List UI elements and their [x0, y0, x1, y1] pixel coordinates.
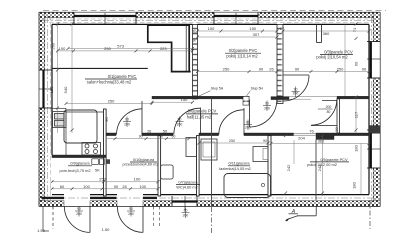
- svg-text:90: 90: [263, 139, 267, 143]
- door D3 lazienka-hall: [219, 108, 244, 135]
- svg-text:1.50: 1.50: [37, 228, 46, 233]
- window W5 right (pokoj 3): [367, 130, 381, 168]
- window W2 top (pokoj 1): [214, 13, 258, 24]
- wall V3 przedsionek left: [104, 109, 107, 196]
- svg-text:50: 50: [163, 128, 168, 133]
- room label pokoj 1: [225, 48, 261, 59]
- interior wall V2 pokoj1/pokoj2: [277, 24, 283, 96]
- wardrobe stub wall: [337, 99, 340, 133]
- door D2 wc-hall: [174, 108, 201, 136]
- boiler units in pom.tech: [92, 159, 99, 165]
- wall axis dash-dot lines: [42, 16, 377, 203]
- outer wall top band: [39, 12, 380, 17]
- hall south wall H2 segments: [104, 133, 370, 140]
- svg-text:26: 26: [269, 66, 274, 71]
- outer wall right band: [373, 12, 380, 206]
- svg-text:242: 242: [286, 164, 291, 171]
- svg-text:80: 80: [327, 110, 331, 114]
- wall V4 wc left: [158, 136, 161, 196]
- interior wall V1 salon/pokoj1: [193, 24, 198, 99]
- svg-text:łazienka|14,05 m2: łazienka|14,05 m2: [219, 166, 251, 171]
- wall V5 lazienka left: [197, 136, 200, 196]
- svg-text:pokój 1|10,14 m2: pokój 1|10,14 m2: [226, 54, 258, 59]
- counter edge left: [65, 108, 67, 155]
- svg-text:573: 573: [117, 43, 124, 48]
- window W1 top (salon): [74, 13, 136, 24]
- svg-text:362: 362: [318, 138, 325, 143]
- dimension tick marks: [51, 23, 371, 195]
- dashed pair below wc wall: [154, 207, 160, 229]
- svg-text:76: 76: [309, 128, 314, 133]
- opening pokoj3 (no leaf): [294, 133, 317, 135]
- window W4 right (pokoj 2): [367, 42, 381, 79]
- svg-text:70: 70: [159, 135, 163, 139]
- svg-text:60: 60: [60, 184, 65, 189]
- svg-text:salon+kuchnia|33,48 m2: salon+kuchnia|33,48 m2: [87, 79, 132, 84]
- svg-text:przedsionek|4,60 m2: przedsionek|4,60 m2: [122, 161, 158, 166]
- svg-text:223: 223: [160, 46, 167, 51]
- room label pokoj 2: [316, 49, 353, 59]
- svg-text:180: 180: [354, 144, 359, 151]
- svg-text:90: 90: [295, 66, 300, 71]
- svg-text:100: 100: [208, 26, 215, 31]
- room label salon: [85, 74, 137, 85]
- svg-text:hall|11,35 m2: hall|11,35 m2: [187, 114, 212, 119]
- svg-text:200: 200: [326, 105, 332, 109]
- svg-text:0/2|panele PVC: 0/2|panele PVC: [229, 48, 258, 53]
- room label hall: [186, 108, 218, 119]
- wc counter: [186, 138, 197, 157]
- wc toilet: [161, 165, 174, 179]
- svg-text:100: 100: [139, 184, 146, 189]
- svg-text:Słup 5H: Słup 5H: [211, 87, 224, 91]
- svg-text:90: 90: [362, 66, 367, 71]
- svg-text:26: 26: [122, 184, 127, 189]
- svg-text:pokój 3|12,00 m2: pokój 3|12,00 m2: [307, 162, 337, 167]
- roof overhang dashed line top: [43, 9, 386, 11]
- svg-text:150: 150: [249, 26, 256, 31]
- svg-text:Słup 5H: Słup 5H: [251, 87, 264, 91]
- room label pom.tech: [59, 161, 92, 173]
- sub-H2 dim texts: [139, 130, 267, 143]
- svg-text:150: 150: [49, 86, 54, 93]
- outer wall bottom band: [39, 201, 380, 207]
- svg-text:87: 87: [280, 26, 285, 31]
- door D1 przedsionek-salon: [117, 101, 143, 135]
- svg-text:0/6|panele PCV: 0/6|panele PCV: [188, 108, 217, 113]
- svg-text:26: 26: [193, 30, 197, 34]
- section line x=316: [315, 140, 317, 201]
- wall outer face lines: [39, 12, 380, 206]
- svg-text:30: 30: [334, 127, 339, 132]
- svg-text:5K: 5K: [95, 167, 100, 172]
- dimension texts rotated: [49, 27, 359, 189]
- door D9 exterior kitchen: [117, 207, 143, 233]
- room label lazienka: [219, 161, 251, 171]
- svg-text:pokój 2|10,54 m2: pokój 2|10,54 m2: [316, 55, 348, 60]
- svg-text:204: 204: [298, 135, 305, 140]
- svg-text:0/9|glazura: 0/9|glazura: [70, 161, 90, 166]
- svg-text:117: 117: [354, 111, 359, 118]
- svg-text:100: 100: [134, 177, 141, 182]
- svg-text:71: 71: [352, 27, 357, 32]
- svg-text:540: 540: [63, 86, 68, 93]
- beam lines over corridor door: [289, 97, 337, 101]
- kitchen island: [64, 110, 97, 143]
- svg-text:90: 90: [193, 38, 197, 42]
- door D7 pokoj2: [283, 75, 309, 101]
- svg-text:1.50: 1.50: [102, 227, 111, 232]
- window W3 left (salon): [39, 70, 52, 108]
- door D8 exterior przedsionek: [64, 207, 90, 233]
- wall V6 lazienka/pokoj3: [268, 136, 271, 196]
- svg-text:250: 250: [223, 66, 230, 71]
- kitchen counter sink: [53, 112, 67, 128]
- svg-text:50: 50: [171, 135, 175, 139]
- lazienka wc pan: [253, 147, 268, 162]
- svg-text:100: 100: [83, 184, 90, 189]
- svg-text:WC|4,60 m2: WC|4,60 m2: [176, 184, 198, 189]
- svg-text:0/1|panele PVC: 0/1|panele PVC: [108, 74, 137, 79]
- svg-text:90: 90: [114, 184, 119, 189]
- svg-text:0/3|panele PCV: 0/3|panele PCV: [324, 49, 353, 54]
- svg-text:250: 250: [104, 46, 111, 51]
- room label pokoj 3: [307, 157, 349, 167]
- svg-text:250: 250: [229, 139, 235, 143]
- window W6 bottom (wc): [172, 196, 197, 210]
- svg-text:250: 250: [337, 66, 344, 71]
- kitchen annex line: [52, 67, 148, 69]
- svg-text:307: 307: [253, 32, 260, 37]
- svg-text:250: 250: [108, 98, 115, 103]
- svg-text:180: 180: [352, 181, 357, 188]
- svg-text:260: 260: [51, 42, 56, 49]
- dimension texts horizontal: [37, 26, 367, 233]
- closet walls in salon: [148, 24, 191, 72]
- lintel bars bottom wall: [42, 197, 158, 199]
- wall inner face lines: [52, 24, 369, 194]
- wall V2 stub at hall: [277, 96, 283, 103]
- wall block at W5 top: [369, 126, 380, 134]
- svg-text:90: 90: [259, 66, 264, 71]
- room label wc: [176, 179, 200, 189]
- section line x=211.5: [211, 99, 213, 206]
- door size labels 90/200: [75, 87, 333, 219]
- stove 4 burners: [82, 143, 101, 156]
- svg-text:150: 150: [181, 97, 188, 102]
- svg-text:100: 100: [59, 46, 66, 51]
- porch lines bottom-left: [43, 207, 53, 232]
- bathtub: [224, 174, 271, 198]
- svg-text:60: 60: [354, 61, 359, 66]
- dimension lines: [52, 24, 369, 196]
- hall north wall H1 segments: [152, 96, 369, 99]
- door D5 corridor: [311, 100, 337, 126]
- room label przedsionek: [122, 157, 158, 166]
- svg-text:90: 90: [104, 117, 109, 122]
- svg-text:pom.tech|3,75 m2: pom.tech|3,75 m2: [59, 168, 90, 173]
- slup column: [243, 96, 249, 105]
- duct in pokoj 2: [317, 24, 322, 42]
- section marker A: [285, 207, 316, 222]
- slup 5H labels: [199, 87, 264, 97]
- svg-text:250: 250: [99, 177, 106, 182]
- svg-text:90: 90: [139, 135, 143, 139]
- outer wall left band: [39, 12, 45, 206]
- lazienka washbasin: [201, 139, 217, 160]
- section dashdot x=370: [369, 200, 371, 229]
- door D4 pokoj1-hall: [250, 100, 277, 127]
- wall H3 pom.tech top: [52, 155, 106, 158]
- svg-text:360: 360: [323, 31, 330, 36]
- svg-text:26: 26: [147, 130, 151, 134]
